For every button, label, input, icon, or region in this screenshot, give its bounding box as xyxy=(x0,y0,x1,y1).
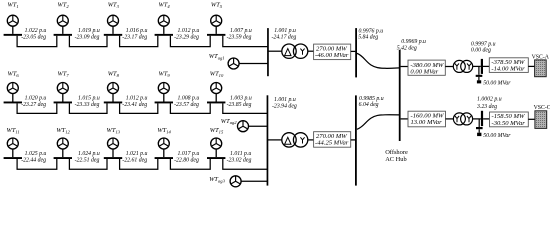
svg-text:-23.27 deg: -23.27 deg xyxy=(21,102,46,108)
bus bar WT1 xyxy=(4,34,22,36)
wind turbine WT9 xyxy=(158,83,169,94)
wind turbine WT4 xyxy=(158,15,169,26)
svg-text:1.025 p.u: 1.025 p.u xyxy=(25,151,47,157)
wind turbine WT15 xyxy=(211,138,222,149)
wire WTag1 to collection bus xyxy=(239,63,268,65)
export bus 1 xyxy=(355,28,357,77)
bus bar WT14 xyxy=(155,157,173,159)
svg-text:1.003 p.u: 1.003 p.u xyxy=(230,96,252,102)
stem WT10 xyxy=(215,94,217,102)
wind turbine WTag1 xyxy=(228,58,239,69)
stem WT3 xyxy=(112,26,114,34)
bus voltage label 1.016 p.u -23.17 deg xyxy=(122,28,147,40)
svg-text:AC Hub: AC Hub xyxy=(385,156,406,163)
wire bus A to flow box A2 xyxy=(483,65,489,67)
shunt 50.00 MVar (branch C) xyxy=(476,119,483,136)
collection bus 2 (rows 2-3) xyxy=(267,95,269,185)
stem WT12 xyxy=(62,149,64,157)
wire feeder row3 segment 2 xyxy=(69,159,107,169)
svg-text:-23.85 deg: -23.85 deg xyxy=(227,102,252,108)
bus A label 0.9997 p.u 0.00 deg xyxy=(471,41,496,53)
stem WT8 xyxy=(112,94,114,102)
wire flow box A to transformer A xyxy=(445,66,453,68)
wind turbine WT13 xyxy=(108,138,119,149)
svg-text:-46.00 MVar: -46.00 MVar xyxy=(315,52,349,59)
svg-text:-23.94 deg: -23.94 deg xyxy=(272,103,297,110)
export bus 2 xyxy=(355,95,357,185)
wire feeder row2 segment 1 xyxy=(17,103,57,113)
transformer T1 (Delta-Y) xyxy=(282,44,308,58)
bus bar WT2 xyxy=(54,34,72,36)
svg-text:1.020 p.u: 1.020 p.u xyxy=(25,96,47,102)
bus bar WT9 xyxy=(155,102,173,104)
svg-text:VSC-A: VSC-A xyxy=(532,54,550,60)
wire transformer C to bus C xyxy=(473,118,481,120)
stem WT13 xyxy=(112,149,114,157)
svg-text:0.00 MVar: 0.00 MVar xyxy=(410,69,438,76)
svg-text:1.015 p.u: 1.015 p.u xyxy=(78,96,100,102)
svg-text:6.04 deg: 6.04 deg xyxy=(359,101,379,108)
wire collection bus 2 to transformer T2 xyxy=(267,139,281,141)
svg-text:-44.25 MVar: -44.25 MVar xyxy=(315,140,349,147)
shunt 50.00 MVar (branch A) xyxy=(476,66,483,83)
svg-text:5.84 deg: 5.84 deg xyxy=(358,33,378,40)
svg-text:-22.61 deg: -22.61 deg xyxy=(122,157,147,163)
wire T2 to flow box xyxy=(308,139,314,141)
flow box -380.00 MW 0.00 MVar xyxy=(408,60,445,75)
stem WT14 xyxy=(163,149,165,157)
wire transformer A to bus A xyxy=(473,65,481,67)
svg-text:-23.29 deg: -23.29 deg xyxy=(174,34,199,40)
bus C label 1.0002 p.u 3.23 deg xyxy=(476,97,502,110)
bus voltage label 1.007 p.u -23.59 deg xyxy=(227,28,252,40)
bus voltage label 1.021 p.u -22.61 deg xyxy=(122,151,147,163)
svg-text:-30.50 MVar: -30.50 MVar xyxy=(492,120,526,127)
wind turbine WT14 xyxy=(158,138,169,149)
svg-text:-22.80 deg: -22.80 deg xyxy=(174,157,199,163)
converter VSC-A xyxy=(535,60,547,77)
stem WT9 xyxy=(163,94,165,102)
flow box 270.00 MW -46.00 MVar xyxy=(314,44,351,60)
svg-text:VSC-C: VSC-C xyxy=(534,105,550,111)
svg-text:0.00 deg: 0.00 deg xyxy=(471,47,491,53)
wind turbine WT6 xyxy=(7,83,18,94)
svg-text:50.00 MVar: 50.00 MVar xyxy=(483,81,511,87)
bus bar WT11 xyxy=(4,157,22,159)
svg-text:-22.44 deg: -22.44 deg xyxy=(21,156,46,163)
svg-text:-23.41 deg: -23.41 deg xyxy=(122,101,147,108)
bus bar WT3 xyxy=(104,34,122,36)
wire feeder row1 to collection bus xyxy=(223,36,268,47)
bus voltage label 1.020 p.u -23.27 deg xyxy=(21,96,46,108)
wire feeder row3 segment 1 xyxy=(17,159,57,169)
wind turbine WT12 xyxy=(57,138,68,149)
wire feeder row2 segment 3 xyxy=(120,103,158,113)
hub bus label 0.9969 p.u 5.42 deg xyxy=(397,39,426,52)
wind turbine WT7 xyxy=(57,83,68,94)
wind turbine WT11 xyxy=(7,138,18,149)
svg-text:1.007 p.u: 1.007 p.u xyxy=(230,28,252,34)
bus bar WT15 xyxy=(207,157,225,159)
bus bar WT4 xyxy=(155,34,173,36)
bus bar WT10 xyxy=(207,102,225,104)
converter VSC-C xyxy=(535,111,547,129)
svg-text:-23.17 deg: -23.17 deg xyxy=(122,34,147,40)
bus bar WT12 xyxy=(54,157,72,159)
wire feeder row1 segment 2 xyxy=(69,36,107,47)
svg-text:1.008 p.u: 1.008 p.u xyxy=(178,96,200,102)
svg-text:-23.57 deg: -23.57 deg xyxy=(174,102,199,108)
svg-text:-23.59 deg: -23.59 deg xyxy=(227,34,252,40)
wire feeder row1 segment 4 xyxy=(170,36,210,47)
bus voltage label 1.025 p.u -22.44 deg xyxy=(21,151,46,163)
wire WTag2 to collection bus xyxy=(249,125,268,127)
flow box -378.50 MW -14.00 MVar xyxy=(489,58,528,73)
svg-text:-14.00 MVar: -14.00 MVar xyxy=(491,66,525,73)
wire flow box C to transformer C xyxy=(446,118,454,120)
wind turbine WT2 xyxy=(57,15,68,26)
stem WT15 xyxy=(215,149,217,157)
transformer T2 (Delta-Y) xyxy=(282,133,308,147)
wire WTag3 to collection bus xyxy=(241,180,267,182)
bus voltage label 1.017 p.u -22.80 deg xyxy=(174,151,199,163)
offshore AC hub bus xyxy=(399,50,401,141)
wire feeder row3 segment 4 xyxy=(170,159,210,169)
wire flow box A2 to VSC-A xyxy=(528,65,534,67)
svg-text:-23.02 deg: -23.02 deg xyxy=(227,157,252,163)
wire feeder row3 to collection bus xyxy=(223,159,268,169)
bus voltage label 1.015 p.u -23.33 deg xyxy=(75,96,100,108)
svg-text:1.0002 p.u: 1.0002 p.u xyxy=(477,97,502,103)
wire feeder row2 segment 4 xyxy=(170,103,210,113)
export bus 1 label 0.9976 p.u 5.84 deg xyxy=(358,29,383,41)
svg-text:1.012 p.u: 1.012 p.u xyxy=(178,28,200,34)
wire feeder row1 segment 3 xyxy=(120,36,158,47)
svg-text:1.001 p.u: 1.001 p.u xyxy=(274,97,296,103)
bus bar WT5 xyxy=(207,34,225,36)
wind turbine WT5 xyxy=(211,15,222,26)
wind turbine WT8 xyxy=(108,83,119,94)
bus voltage label 1.019 p.u -23.09 deg xyxy=(75,28,100,40)
bus bar WT8 xyxy=(104,102,122,104)
bus bar WT13 xyxy=(104,157,122,159)
bus C (VSC-C side) xyxy=(481,111,483,126)
collection bus 2 label 1.001 p.u -23.94 deg xyxy=(272,97,297,109)
bus voltage label 1.012 p.u -23.41 deg xyxy=(122,96,147,108)
cable export bus 2 to hub xyxy=(357,115,400,130)
svg-text:-23.05 deg: -23.05 deg xyxy=(21,34,46,40)
wind turbine WTag2 xyxy=(238,121,249,132)
stem WT6 xyxy=(12,94,14,102)
wire T1 to flow box xyxy=(308,50,314,52)
wire feeder row2 segment 2 xyxy=(69,103,107,113)
wire flow box to export bus 1 xyxy=(351,50,356,52)
svg-text:1.011 p.u: 1.011 p.u xyxy=(230,151,251,157)
wire feeder row3 segment 3 xyxy=(120,159,158,169)
bus voltage label 1.003 p.u -23.85 deg xyxy=(227,96,252,108)
wind turbine WT10 xyxy=(211,83,222,94)
bus voltage label 1.022 p.u -23.05 deg xyxy=(21,28,46,40)
svg-text:3.23 deg: 3.23 deg xyxy=(476,104,497,110)
flow box -160.00 MW 13.00 MVar xyxy=(408,111,446,127)
stem WT2 xyxy=(62,26,64,34)
stem WT11 xyxy=(12,149,14,157)
collection bus 1 (rows 1) xyxy=(267,28,269,76)
stem WT5 xyxy=(215,26,217,34)
wire flow box C2 to VSC-C xyxy=(528,118,535,120)
svg-text:-23.33 deg: -23.33 deg xyxy=(75,102,100,108)
svg-text:-24.17 deg: -24.17 deg xyxy=(272,33,297,40)
wire feeder row2 to collection bus xyxy=(223,103,268,113)
svg-text:1.021 p.u: 1.021 p.u xyxy=(126,151,148,157)
bus voltage label 1.012 p.u -23.29 deg xyxy=(174,28,199,40)
flow box -158.50 MW -30.50 MVar xyxy=(490,112,529,127)
wire hub to flow box C xyxy=(401,118,408,120)
export bus 2 label 0.9985 p.u 6.04 deg xyxy=(359,96,384,108)
transformer A (Y-Y) xyxy=(453,60,472,72)
stem WT4 xyxy=(163,26,165,34)
flow box 270.00 MW -44.25 MVar xyxy=(314,132,351,148)
bus voltage label 1.011 p.u -23.02 deg xyxy=(227,151,252,163)
wind turbine WT1 xyxy=(7,15,18,26)
transformer C (Y-Y) xyxy=(453,113,472,125)
collection bus 1 label 1.001 p.u -24.17 deg xyxy=(272,28,297,40)
bus bar WT6 xyxy=(4,102,22,104)
svg-text:-22.51 deg: -22.51 deg xyxy=(75,157,100,163)
wind turbine WTag3 xyxy=(230,176,241,187)
bus bar WT7 xyxy=(54,102,72,104)
svg-text:1.012 p.u: 1.012 p.u xyxy=(126,96,148,102)
svg-text:0.9985 p.u: 0.9985 p.u xyxy=(359,96,384,102)
wire hub to flow box A xyxy=(401,66,408,68)
svg-text:50.00 MVar: 50.00 MVar xyxy=(483,133,511,139)
wire collection bus 1 to transformer T1 xyxy=(268,50,282,52)
wire flow box to export bus 2 xyxy=(351,139,356,141)
svg-text:1.022 p.u: 1.022 p.u xyxy=(25,28,47,34)
svg-text:1.001 p.u: 1.001 p.u xyxy=(274,28,296,34)
svg-text:5.42 deg: 5.42 deg xyxy=(397,45,417,52)
wind turbine WT3 xyxy=(108,15,119,26)
svg-text:13.00 MVar: 13.00 MVar xyxy=(411,119,443,126)
svg-text:1.017 p.u: 1.017 p.u xyxy=(178,151,200,157)
svg-text:1.019 p.u: 1.019 p.u xyxy=(78,28,100,34)
svg-text:0.9969 p.u: 0.9969 p.u xyxy=(401,39,426,45)
bus A (VSC-A side) xyxy=(481,59,483,74)
stem WT7 xyxy=(62,94,64,102)
cable export bus 1 to hub xyxy=(357,53,400,68)
wire feeder row1 segment 1 xyxy=(17,36,57,47)
label Offshore AC Hub xyxy=(385,149,408,163)
svg-text:1.016 p.u: 1.016 p.u xyxy=(126,28,148,34)
stem WT1 xyxy=(12,26,14,34)
bus voltage label 1.024 p.u -22.51 deg xyxy=(75,150,100,163)
bus voltage label 1.008 p.u -23.57 deg xyxy=(174,96,199,108)
wire bus C to flow box C2 xyxy=(483,118,489,120)
svg-text:1.024 p.u: 1.024 p.u xyxy=(78,150,100,157)
svg-text:-23.09 deg: -23.09 deg xyxy=(75,34,100,40)
